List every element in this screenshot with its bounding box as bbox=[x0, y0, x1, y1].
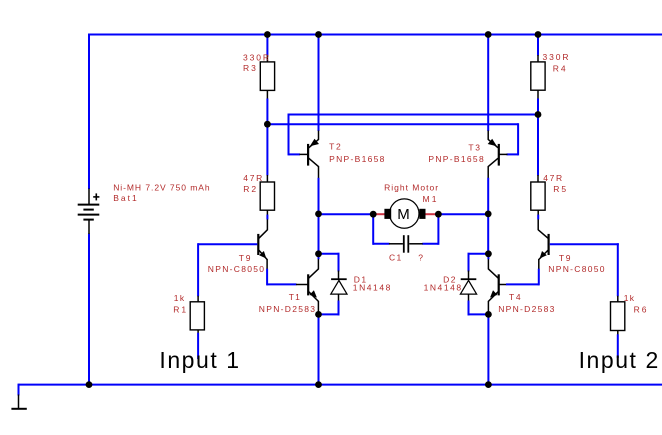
svg-text:Input 1: Input 1 bbox=[159, 347, 240, 373]
svg-text:R1: R1 bbox=[173, 304, 188, 314]
svg-text:NPN-C8050: NPN-C8050 bbox=[208, 264, 266, 274]
wire battery column top bbox=[88, 34, 90, 190]
capacitor C1 bbox=[372, 213, 374, 245]
wire T2 collector column bbox=[318, 178, 320, 254]
transistor T4 bbox=[488, 259, 506, 315]
diode D1 bbox=[319, 253, 340, 255]
wire T3 collector column bbox=[487, 178, 489, 254]
junction T1 collector / D1 bbox=[315, 250, 322, 257]
svg-text:Input 2: Input 2 bbox=[579, 347, 660, 373]
transistor T9 left bbox=[258, 210, 267, 269]
battery Bat1 bbox=[78, 189, 100, 235]
junction bottom rail / T4 bbox=[485, 381, 492, 388]
junction dots bbox=[264, 31, 271, 38]
diode D2 bbox=[468, 253, 489, 255]
svg-text:NPN-C8050: NPN-C8050 bbox=[548, 264, 606, 274]
wire R3 bottom to node A to R2 bbox=[266, 99, 268, 176]
resistor R2 bbox=[266, 175, 268, 183]
wire T9R emitter down bbox=[538, 269, 540, 286]
wire T9R emitter to T4 base bbox=[506, 283, 539, 285]
wire T2 emitter column bbox=[318, 34, 320, 132]
wire T3 base to node A bbox=[267, 123, 518, 125]
svg-text:T9: T9 bbox=[559, 253, 572, 263]
wire T9L emitter to T1 base bbox=[267, 283, 297, 285]
svg-text:R5: R5 bbox=[553, 184, 568, 194]
junction bottom rail / battery bbox=[86, 381, 93, 388]
ground bbox=[18, 395, 20, 409]
svg-text:?: ? bbox=[418, 253, 424, 263]
wire motor row right bbox=[438, 213, 488, 215]
svg-text:NPN-D2583: NPN-D2583 bbox=[498, 304, 556, 314]
svg-text:T1: T1 bbox=[289, 292, 302, 302]
wire T9L base bbox=[198, 243, 257, 245]
wire R4 column top bbox=[537, 34, 539, 56]
junction T4 emitter / D2 bbox=[485, 311, 492, 318]
wire battery column bottom bbox=[88, 234, 90, 385]
transistor T9 right bbox=[538, 210, 548, 269]
junction dot bbox=[390, 199, 419, 228]
svg-text:M1: M1 bbox=[423, 194, 439, 204]
svg-text:T9: T9 bbox=[239, 253, 252, 263]
junction motor left terminal bbox=[370, 211, 377, 218]
wire T2 base riser bbox=[288, 114, 290, 156]
resistor R5 bbox=[537, 175, 539, 183]
wire T3 base stub bbox=[507, 153, 519, 155]
wire T9L collector blue bit bbox=[266, 215, 268, 220]
svg-text:1k: 1k bbox=[174, 293, 186, 303]
junction top rail / R4 bbox=[535, 31, 542, 38]
junction T4 collector / D2 bbox=[485, 250, 492, 257]
wire T9R collector blue bit bbox=[537, 215, 539, 220]
wire T3 base riser bbox=[517, 123, 519, 155]
svg-text:Right Motor: Right Motor bbox=[384, 183, 439, 193]
wire T9R base bbox=[550, 243, 619, 245]
svg-text:C1: C1 bbox=[389, 253, 403, 263]
wire bottom rail bbox=[19, 384, 662, 386]
wire T4 column bottom bbox=[487, 313, 489, 384]
svg-text:47R: 47R bbox=[543, 173, 564, 183]
svg-text:1N4148: 1N4148 bbox=[353, 283, 392, 293]
svg-text:M: M bbox=[397, 206, 410, 223]
svg-text:R6: R6 bbox=[634, 304, 649, 314]
junction top rail / T2 emitter bbox=[315, 31, 322, 38]
svg-text:T2: T2 bbox=[329, 142, 342, 152]
junction top rail / T3 emitter bbox=[485, 31, 492, 38]
svg-text:330R: 330R bbox=[243, 52, 271, 62]
svg-text:Ni-MH 7.2V 750 mAh: Ni-MH 7.2V 750 mAh bbox=[113, 183, 210, 193]
junction motor right terminal bbox=[435, 211, 442, 218]
svg-text:T3: T3 bbox=[468, 142, 481, 152]
svg-text:T4: T4 bbox=[509, 292, 522, 302]
wire T2 base to node B bbox=[289, 114, 539, 116]
wire R3 column top bbox=[266, 34, 268, 56]
resistor R6 bbox=[617, 243, 619, 296]
svg-text:47R: 47R bbox=[243, 173, 264, 183]
svg-text:Bat1: Bat1 bbox=[113, 193, 139, 203]
junction T1 emitter / D1 bbox=[315, 311, 322, 318]
resistor R1 bbox=[197, 243, 199, 296]
transistor T2 bbox=[300, 131, 319, 179]
resistor R3 bbox=[266, 55, 268, 63]
svg-text:1k: 1k bbox=[624, 293, 636, 303]
wire T3 emitter column bbox=[487, 34, 489, 132]
junction node B (R4/R5/T2-base wire) bbox=[535, 111, 542, 118]
transistor T3 bbox=[488, 131, 508, 179]
wire T1 column bottom bbox=[318, 313, 320, 384]
wire T2 base stub bbox=[289, 153, 301, 155]
junction node A (R3/R2/T3-base wire) bbox=[264, 121, 271, 128]
wire motor row left bbox=[319, 213, 374, 215]
wire top rail bbox=[88, 34, 662, 36]
junction bottom rail / T1 bbox=[315, 381, 322, 388]
svg-text:R2: R2 bbox=[243, 184, 258, 194]
wire R4 bottom to node B to R5 bbox=[537, 99, 539, 176]
junction T2 collector / motor row bbox=[315, 211, 322, 218]
motor M1 bbox=[373, 213, 385, 215]
svg-text:PNP-B1658: PNP-B1658 bbox=[428, 154, 485, 164]
wire ground stub bbox=[18, 384, 20, 396]
svg-text:330R: 330R bbox=[543, 52, 571, 62]
resistor R4 bbox=[537, 55, 539, 63]
svg-text:R4: R4 bbox=[553, 64, 568, 74]
svg-text:1N4148: 1N4148 bbox=[424, 283, 463, 293]
svg-text:R3: R3 bbox=[243, 63, 258, 73]
wire T9L emitter down bbox=[266, 269, 268, 286]
svg-text:NPN-D2583: NPN-D2583 bbox=[259, 304, 317, 314]
svg-text:PNP-B1658: PNP-B1658 bbox=[329, 154, 386, 164]
junction T3 collector / motor row bbox=[485, 211, 492, 218]
transistor T1 bbox=[296, 259, 319, 315]
